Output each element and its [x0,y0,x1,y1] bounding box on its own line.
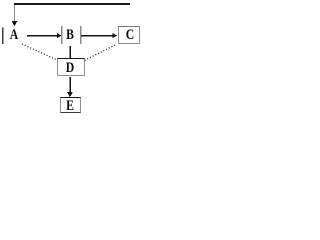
wire: B to D vertical [70,46,71,59]
node A left bar [2,28,4,45]
wire: top feedback horizontal line [14,3,130,5]
node A label [6,28,22,43]
wire: dotted A to D [22,44,57,60]
node B left border [61,26,62,44]
arrowhead into A (down) [12,21,17,26]
wire: arrow D to E [70,77,71,93]
box C [118,26,141,44]
node C label [122,28,138,43]
node B right border [80,26,81,44]
box D [57,58,84,76]
wire: arrow B to C [81,35,113,36]
wire: dotted C to D [85,45,116,61]
diagram canvas [0,0,144,117]
node B label [62,28,78,43]
box E [60,97,81,113]
wire: arrow A to B [27,35,58,36]
node D label [62,61,78,76]
wire: feedback vertical drop to A [14,5,15,22]
node E label [62,99,78,114]
